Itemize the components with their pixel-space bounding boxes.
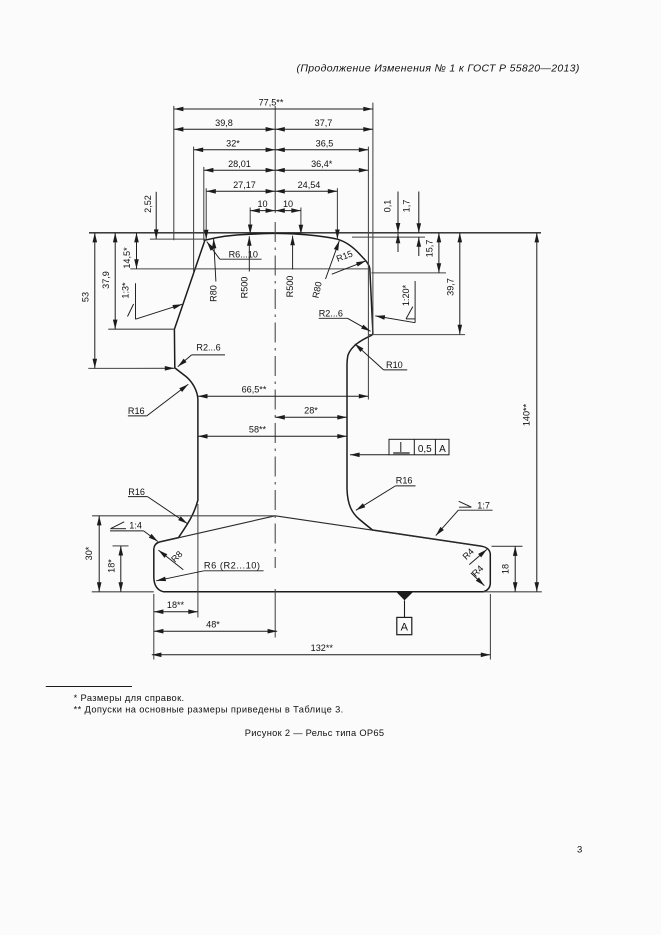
leader R16 right [395,485,415,487]
dim 36,4* [275,169,368,171]
leader R4 lower [471,573,485,586]
svg-text:58**: 58** [249,425,267,435]
slope 1:3 underline [135,283,137,319]
svg-text:R2...6: R2...6 [319,309,343,319]
SECTION:PROFILE [154,233,491,591]
datum frame [397,617,412,634]
centerline chain [274,222,276,568]
tolerance frame 0,5 A [389,439,449,455]
leader R2...6 right [319,317,348,319]
svg-text:R6 (R2...10): R6 (R2...10) [204,561,261,571]
svg-text:R80: R80 [311,281,324,299]
svg-text:R8: R8 [169,549,184,564]
dim 15,7 [438,233,440,273]
SECTION:DIMSLEFT [95,192,156,592]
dim 39,8 [174,128,275,130]
svg-text:32*: 32* [226,138,240,148]
leader R16 left lower [128,496,148,498]
svg-text:** Допуски на основные размеры: ** Допуски на основные размеры приведены… [74,705,344,715]
slope 1:20 angle symbol [406,307,413,319]
svg-text:10: 10 [257,199,267,209]
ext base left bottom [153,594,155,660]
dim 39,7 [459,233,461,335]
svg-text:R16: R16 [128,487,145,497]
svg-text:39,8: 39,8 [215,118,233,128]
line 53 with arrow to head corner [88,367,174,369]
SECTION:DIMSTOP [174,109,373,211]
centerline solid bottom [274,589,276,638]
svg-text:R80: R80 [208,285,218,302]
dim 0,1 upper part [397,192,399,233]
dim 77,5** [174,108,373,110]
dim 30* [98,516,100,592]
base bottom extension left [92,591,154,593]
svg-text:R10: R10 [386,360,403,370]
svg-text:R4: R4 [470,563,485,578]
svg-text:27,17: 27,17 [233,180,256,190]
svg-text:1:3*: 1:3* [120,282,130,299]
slope 1:7 angle symbol [459,501,472,507]
dim 14,5* [136,233,138,269]
slope 1:4 leader [144,531,158,542]
svg-text:28*: 28* [304,406,318,416]
datum stem [404,600,406,617]
SECTION:EXTLINES [88,103,542,660]
leader R80 right [326,241,340,279]
svg-text:15,7: 15,7 [424,240,434,258]
dim 66,5** [198,395,369,397]
leader R80 left [214,239,216,282]
svg-text:R500: R500 [285,276,295,298]
head side tangent line 14,5 [130,268,369,270]
svg-text:132**: 132** [311,643,334,653]
svg-text:77,5**: 77,5** [259,98,284,108]
slope 1:3 leader [136,304,183,319]
dim 37,7 [275,128,373,130]
svg-text:53: 53 [80,292,90,302]
svg-text:37,9: 37,9 [101,271,111,289]
dim 48* [154,630,277,632]
svg-text:66,5**: 66,5** [242,384,267,394]
line 18 right top [492,545,523,547]
svg-text:R500: R500 [240,277,250,299]
svg-text:1:4: 1:4 [129,521,142,531]
svg-text:48*: 48* [206,619,220,629]
dim 18** [154,611,198,613]
svg-text:24,54: 24,54 [298,180,321,190]
ext 77,5 left [173,106,175,240]
crown drop line 1,7 [352,236,425,238]
svg-text:1:20*: 1:20* [401,284,411,306]
leader R6 (R2...10) [204,570,264,572]
footnote separator [46,686,132,688]
leader R2...6 left [192,354,225,356]
svg-text:R16: R16 [396,476,413,486]
top datum line A [89,232,541,234]
dim 36,5 [275,149,368,151]
dim 10 right [275,210,301,212]
leader R10 [384,369,408,371]
SECTION:DIMSRIGHT [398,192,537,592]
svg-text:R4: R4 [461,546,476,561]
tolerance frame perpendicular symbol base [393,452,410,455]
svg-text:39,7: 39,7 [445,278,455,296]
svg-text:140**: 140** [522,403,532,426]
svg-text:36,4*: 36,4* [311,159,333,169]
dim 58** [198,435,347,437]
ext 77,5 right [372,103,374,333]
ext base right bottom [489,594,491,660]
leader R500 right [292,236,294,270]
slope 1:4 underline [110,530,144,532]
dim 0,1 lower part [397,234,399,252]
tolerance frame leader [350,454,389,456]
svg-text:A: A [401,621,409,633]
slope 1:7 leader [436,510,459,535]
dim 28,01 [204,169,275,171]
base peak height line [92,515,275,517]
svg-text:(Продолжение Изменения № 1 к Г: (Продолжение Изменения № 1 к ГОСТ Р 5582… [297,63,580,75]
svg-text:R2...6: R2...6 [196,342,220,352]
ext 24,54 right arrow [336,188,338,239]
rail profile outline [154,233,491,591]
svg-text:10: 10 [283,199,293,209]
leader R8 [158,550,183,570]
base top slope 1:7 construction line [275,516,482,547]
svg-text:36,5: 36,5 [316,138,334,148]
leader R6...10 [220,258,262,260]
corner height line 2,52 [150,238,205,240]
svg-text:14,5*: 14,5* [122,247,132,269]
dim 140** [536,233,538,592]
svg-text:R15: R15 [335,249,354,264]
dim 10 left [250,210,275,212]
datum triangle [397,592,413,600]
dim 1,7 lower part [418,237,420,256]
svg-text:30*: 30* [84,546,94,560]
base top slope 1:4 construction line [159,516,276,543]
SECTION:LABELS [110,236,493,586]
dim 24,54 [275,190,337,192]
ext 27,17 left arrow [205,188,207,239]
svg-text:3: 3 [577,845,582,856]
dim 18 right [514,546,516,592]
dim 27,17 [206,190,275,192]
dim 53 [94,233,96,369]
base bottom extension right [483,591,542,593]
svg-text:28,01: 28,01 [228,159,251,169]
svg-text:1:7: 1:7 [477,501,490,511]
dim 132** [152,654,491,656]
gauge line 15,7 [372,272,447,274]
svg-text:* Размеры для справок.: * Размеры для справок. [74,693,185,703]
svg-text:0,1: 0,1 [382,200,392,213]
leader R500 left [248,236,250,271]
svg-text:Рисунок 2 — Рельс типа ОР65: Рисунок 2 — Рельс типа ОР65 [245,728,385,738]
svg-text:37,7: 37,7 [315,118,333,128]
svg-text:R6...10: R6...10 [229,249,258,259]
ext web left through base [197,504,199,618]
line 37,9 [108,328,174,330]
ext 10 right arrow [300,208,302,235]
svg-text:R16: R16 [128,406,145,416]
slope 1:20 underline [414,281,416,323]
ext 10 left arrow [249,208,251,235]
svg-text:18: 18 [500,564,510,574]
slope 1:3 angle symbol [128,304,134,317]
dim 37,9 [114,233,116,329]
svg-text:1,7: 1,7 [402,200,412,213]
svg-text:18*: 18* [106,559,116,573]
SECTION:DIMSBOT [152,396,491,655]
slope 1:4 angle symbol [111,528,127,530]
dim 28* [275,416,347,418]
tick 18* left top [113,545,129,547]
ext 32* left [193,147,195,273]
dim 2,52 [155,192,157,239]
ext 36,5/36,4/66,5 right [367,147,369,400]
svg-text:0,5: 0,5 [418,444,432,455]
slope 1:20 leader [375,316,415,323]
centerline solid top [274,106,276,213]
leader R16 left upper [128,415,147,417]
leader R4 upper [469,549,487,564]
svg-text:A: A [439,444,446,455]
svg-text:18**: 18** [167,600,185,610]
dim 1,7 upper part [418,192,420,233]
slope 1:7 underline [458,509,492,511]
svg-text:2,52: 2,52 [143,195,153,213]
line 39,7 bottom [369,334,465,336]
dim 32* [194,149,276,151]
ext 28,01 left [203,167,205,241]
dim 18* [120,546,122,592]
leader R15 [332,261,366,274]
